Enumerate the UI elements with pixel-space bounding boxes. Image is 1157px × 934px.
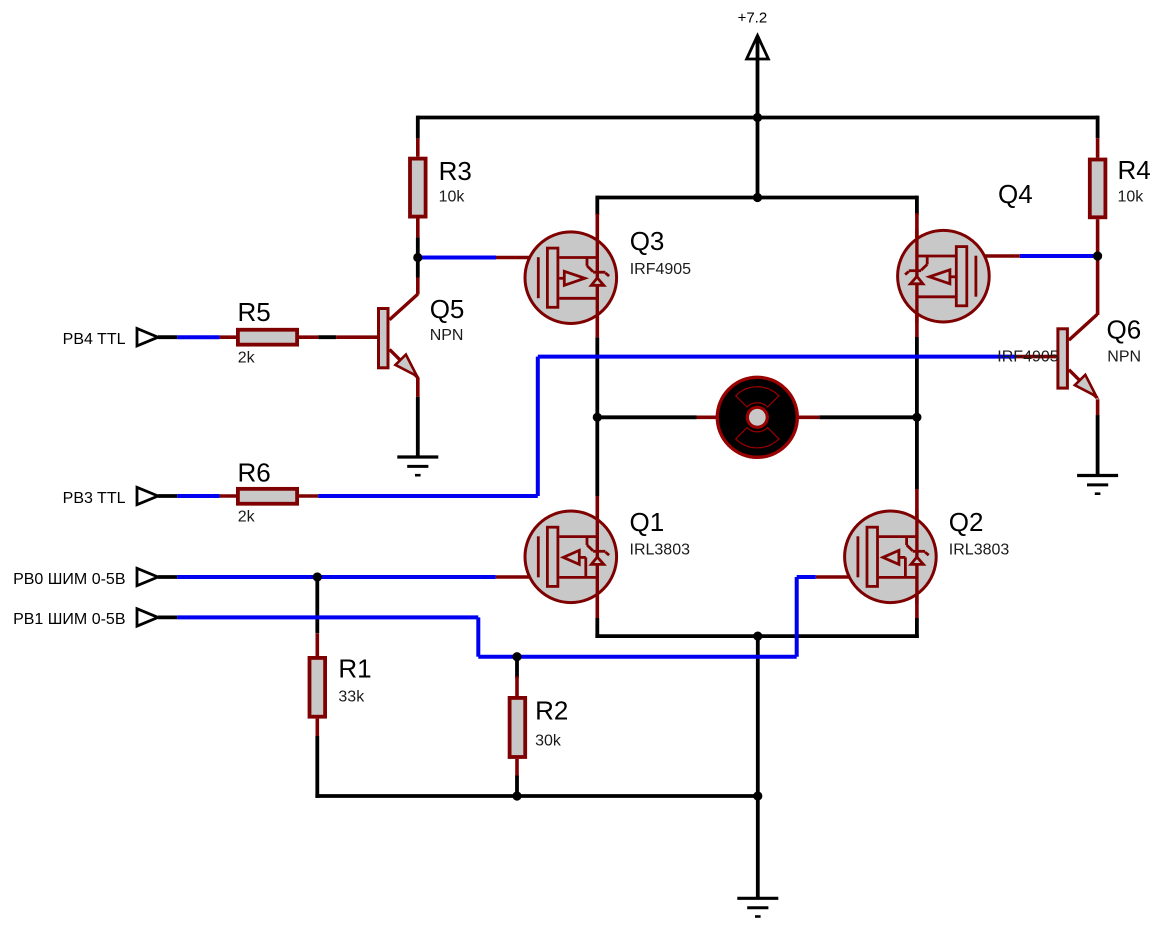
wire Q6 emitter red: [1096, 399, 1100, 415]
value R1: [338, 689, 365, 706]
wire R3 bottom black: [416, 237, 420, 257]
wire R1 top pin red: [315, 633, 319, 656]
svg-text:+7.2: +7.2: [738, 10, 768, 27]
wire PB1 run blue: [478, 655, 796, 659]
wire PB1 riser blue: [795, 577, 799, 657]
terminal PB3: [137, 487, 158, 504]
wire R5 left pin red: [220, 335, 236, 339]
wire inner rail: [597, 196, 917, 200]
svg-text:IRL3803: IRL3803: [949, 542, 1010, 559]
label R5: [238, 297, 271, 327]
wire Q5 base pin red: [336, 335, 377, 339]
label R3: [439, 156, 472, 186]
node source bus: [753, 632, 762, 641]
transistor Q2 IRL3803: [845, 510, 937, 604]
svg-text:R5: R5: [238, 297, 271, 327]
label Q1: [630, 507, 665, 537]
node R4-Q6-Q4: [1093, 251, 1102, 260]
wire PB1 terminal stub: [158, 616, 177, 620]
wire R2 top black: [515, 657, 519, 678]
node PB1-R2: [512, 652, 521, 661]
svg-text:R4: R4: [1118, 155, 1151, 185]
svg-text:Q3: Q3: [630, 226, 665, 256]
wire R1 bottom black: [315, 736, 319, 798]
wire motor right black: [819, 415, 917, 419]
ground under Q5: [397, 457, 438, 475]
label Q4: [998, 179, 1033, 209]
svg-text:R3: R3: [439, 156, 472, 186]
wire Q2 drain red: [915, 489, 919, 618]
transistor Q4 IRF4905: [898, 229, 990, 323]
node ground bus: [753, 791, 762, 800]
node R2 bottom: [512, 791, 521, 800]
wire left column lower black: [595, 618, 599, 638]
wire PB1 blue: [177, 615, 478, 619]
wire Q3 drain red: [595, 214, 599, 338]
ground under Q6: [1077, 476, 1118, 494]
wire ground stem bottom: [756, 796, 760, 898]
wire motor right pin red: [798, 415, 819, 419]
wire Q5 emitter black: [416, 397, 420, 456]
svg-text:PB1 ШИМ 0-5В: PB1 ШИМ 0-5В: [13, 611, 125, 628]
svg-text:PB3 TTL: PB3 TTL: [63, 490, 126, 507]
wire PB0 terminal stub: [158, 575, 177, 579]
svg-text:Q1: Q1: [630, 507, 665, 537]
value Q4 IRF4905: [997, 349, 1058, 366]
wire Q6 base pin red: [1016, 355, 1056, 359]
resistor R3: [410, 159, 426, 217]
wire R6 left pin red: [220, 494, 236, 498]
wire power drop: [756, 36, 760, 198]
node motor right: [912, 413, 921, 422]
svg-text:IRF4905: IRF4905: [630, 261, 691, 278]
wire Q4 gate blue: [1020, 254, 1098, 258]
value R5: [238, 350, 256, 367]
value R3: [439, 189, 466, 206]
svg-text:Q2: Q2: [949, 507, 984, 537]
wire right column mid black: [915, 337, 919, 489]
wire R5 right pin red: [299, 335, 318, 339]
svg-text:IRF4905: IRF4905: [997, 349, 1058, 366]
wire node A black: [416, 258, 420, 278]
wire R2 bottom pin red: [515, 759, 519, 777]
label PB1: [13, 611, 125, 628]
wire PB3 blue: [177, 494, 219, 498]
ground bottom: [737, 898, 778, 916]
wire right column upper black: [915, 196, 919, 215]
wire PB0 blue: [177, 575, 495, 579]
wire Q2 gate pin red: [816, 575, 858, 579]
wire source bus: [595, 634, 918, 638]
node R3-Q5-Q3: [413, 253, 422, 262]
wire Q3 gate blue: [418, 256, 496, 260]
wire Q4 drain red: [915, 213, 919, 337]
wire R1 top black: [315, 577, 319, 633]
wire Q2 gate blue: [797, 575, 816, 579]
svg-text:Q6: Q6: [1107, 315, 1142, 345]
motor M1: [717, 377, 797, 457]
wire Q4 gate pin red: [976, 254, 1020, 258]
resistor R6: [238, 489, 297, 504]
wire motor left black: [597, 415, 696, 419]
wire motor left pin red: [697, 415, 717, 419]
svg-text:2k: 2k: [238, 350, 256, 367]
node power inner: [753, 193, 762, 202]
label PB3 TTL: [63, 490, 126, 507]
wire R6 right pin red: [299, 494, 318, 498]
svg-text:R1: R1: [338, 654, 371, 684]
value Q1 IRL3803: [630, 542, 691, 559]
wire R1 bottom pin red: [315, 719, 319, 736]
label PB4 TTL: [63, 331, 126, 348]
terminal PB1: [137, 609, 158, 626]
wire left column mid black: [595, 337, 599, 496]
label PB0: [13, 571, 125, 588]
wire top rail: [418, 116, 1098, 120]
wire bus to ground drop: [756, 636, 760, 796]
terminal PB0: [137, 568, 158, 585]
label R1: [338, 654, 371, 684]
transistor Q3 IRF4905: [525, 231, 617, 325]
wire bottom bus: [315, 794, 757, 798]
wire R2 top pin red: [515, 676, 519, 696]
wire Q1 gate pin red: [496, 575, 539, 579]
wire Q1 drain red: [595, 496, 599, 618]
label R6: [238, 458, 271, 488]
svg-text:10k: 10k: [439, 189, 466, 206]
wire R4 top black: [1096, 116, 1100, 139]
wire Q5 emitter red: [416, 377, 420, 397]
wire Q3 gate pin red: [496, 256, 538, 260]
svg-text:10k: 10k: [1118, 189, 1145, 206]
resistor R2: [510, 698, 526, 757]
value Q5 NPN: [430, 327, 464, 344]
wire left column upper black: [595, 196, 599, 215]
wire R4 bottom pin red: [1096, 219, 1100, 256]
svg-text:Q5: Q5: [430, 294, 465, 324]
svg-text:2k: 2k: [238, 509, 256, 526]
svg-text:PB0 ШИМ 0-5В: PB0 ШИМ 0-5В: [13, 571, 125, 588]
wire R3 bottom pin red: [416, 219, 420, 238]
value R4: [1118, 189, 1145, 206]
svg-text:30k: 30k: [535, 733, 562, 750]
value Q3 IRF4905: [630, 261, 691, 278]
wire riser blue: [536, 357, 540, 496]
wire R3 top black: [416, 116, 420, 139]
svg-text:33k: 33k: [338, 689, 365, 706]
wire Q6 collector red: [1096, 256, 1100, 315]
wire PB4 terminal stub: [158, 335, 177, 339]
wire R5-Q5 black segment: [318, 335, 336, 339]
node power top: [753, 113, 762, 122]
resistor R1: [310, 658, 326, 717]
label Q3: [630, 226, 665, 256]
wire Q6 base blue: [538, 355, 1016, 359]
svg-text:R2: R2: [535, 696, 568, 726]
label R4: [1118, 155, 1151, 185]
label R2: [535, 696, 568, 726]
wire PB1 drop blue: [476, 617, 480, 656]
wire right column lower black: [915, 618, 919, 638]
svg-text:NPN: NPN: [430, 327, 464, 344]
value R2: [535, 733, 562, 750]
wire Q5 collector red: [416, 278, 420, 295]
power +7.2 symbol: [747, 33, 769, 59]
node PB0-R1: [313, 572, 322, 581]
wire Q6 emitter black: [1096, 415, 1100, 475]
value R6: [238, 509, 256, 526]
svg-text:R6: R6: [238, 458, 271, 488]
wire R3 top pin red: [416, 138, 420, 156]
transistor Q6 NPN: [1058, 314, 1097, 398]
resistor R4: [1090, 160, 1106, 218]
wire R4 top pin red: [1096, 138, 1100, 157]
wire PB4 blue: [177, 335, 219, 339]
transistor Q5 NPN: [379, 294, 418, 378]
label Q2: [949, 507, 984, 537]
value Q2 IRL3803: [949, 542, 1010, 559]
wire PB3 terminal stub: [158, 494, 177, 498]
value Q6 NPN: [1107, 349, 1141, 366]
resistor R5: [238, 330, 297, 345]
svg-text:PB4 TTL: PB4 TTL: [63, 331, 126, 348]
label Q5: [430, 294, 465, 324]
svg-text:IRL3803: IRL3803: [630, 542, 691, 559]
net label +7.2: [738, 10, 768, 27]
label Q6: [1107, 315, 1142, 345]
node motor left: [593, 413, 602, 422]
transistor Q1 IRL3803: [525, 510, 617, 604]
svg-text:Q4: Q4: [998, 179, 1033, 209]
terminal PB4: [137, 329, 158, 346]
svg-text:NPN: NPN: [1107, 349, 1141, 366]
wire R2 bottom black: [515, 776, 519, 797]
wire R6 to corner blue: [318, 494, 538, 498]
